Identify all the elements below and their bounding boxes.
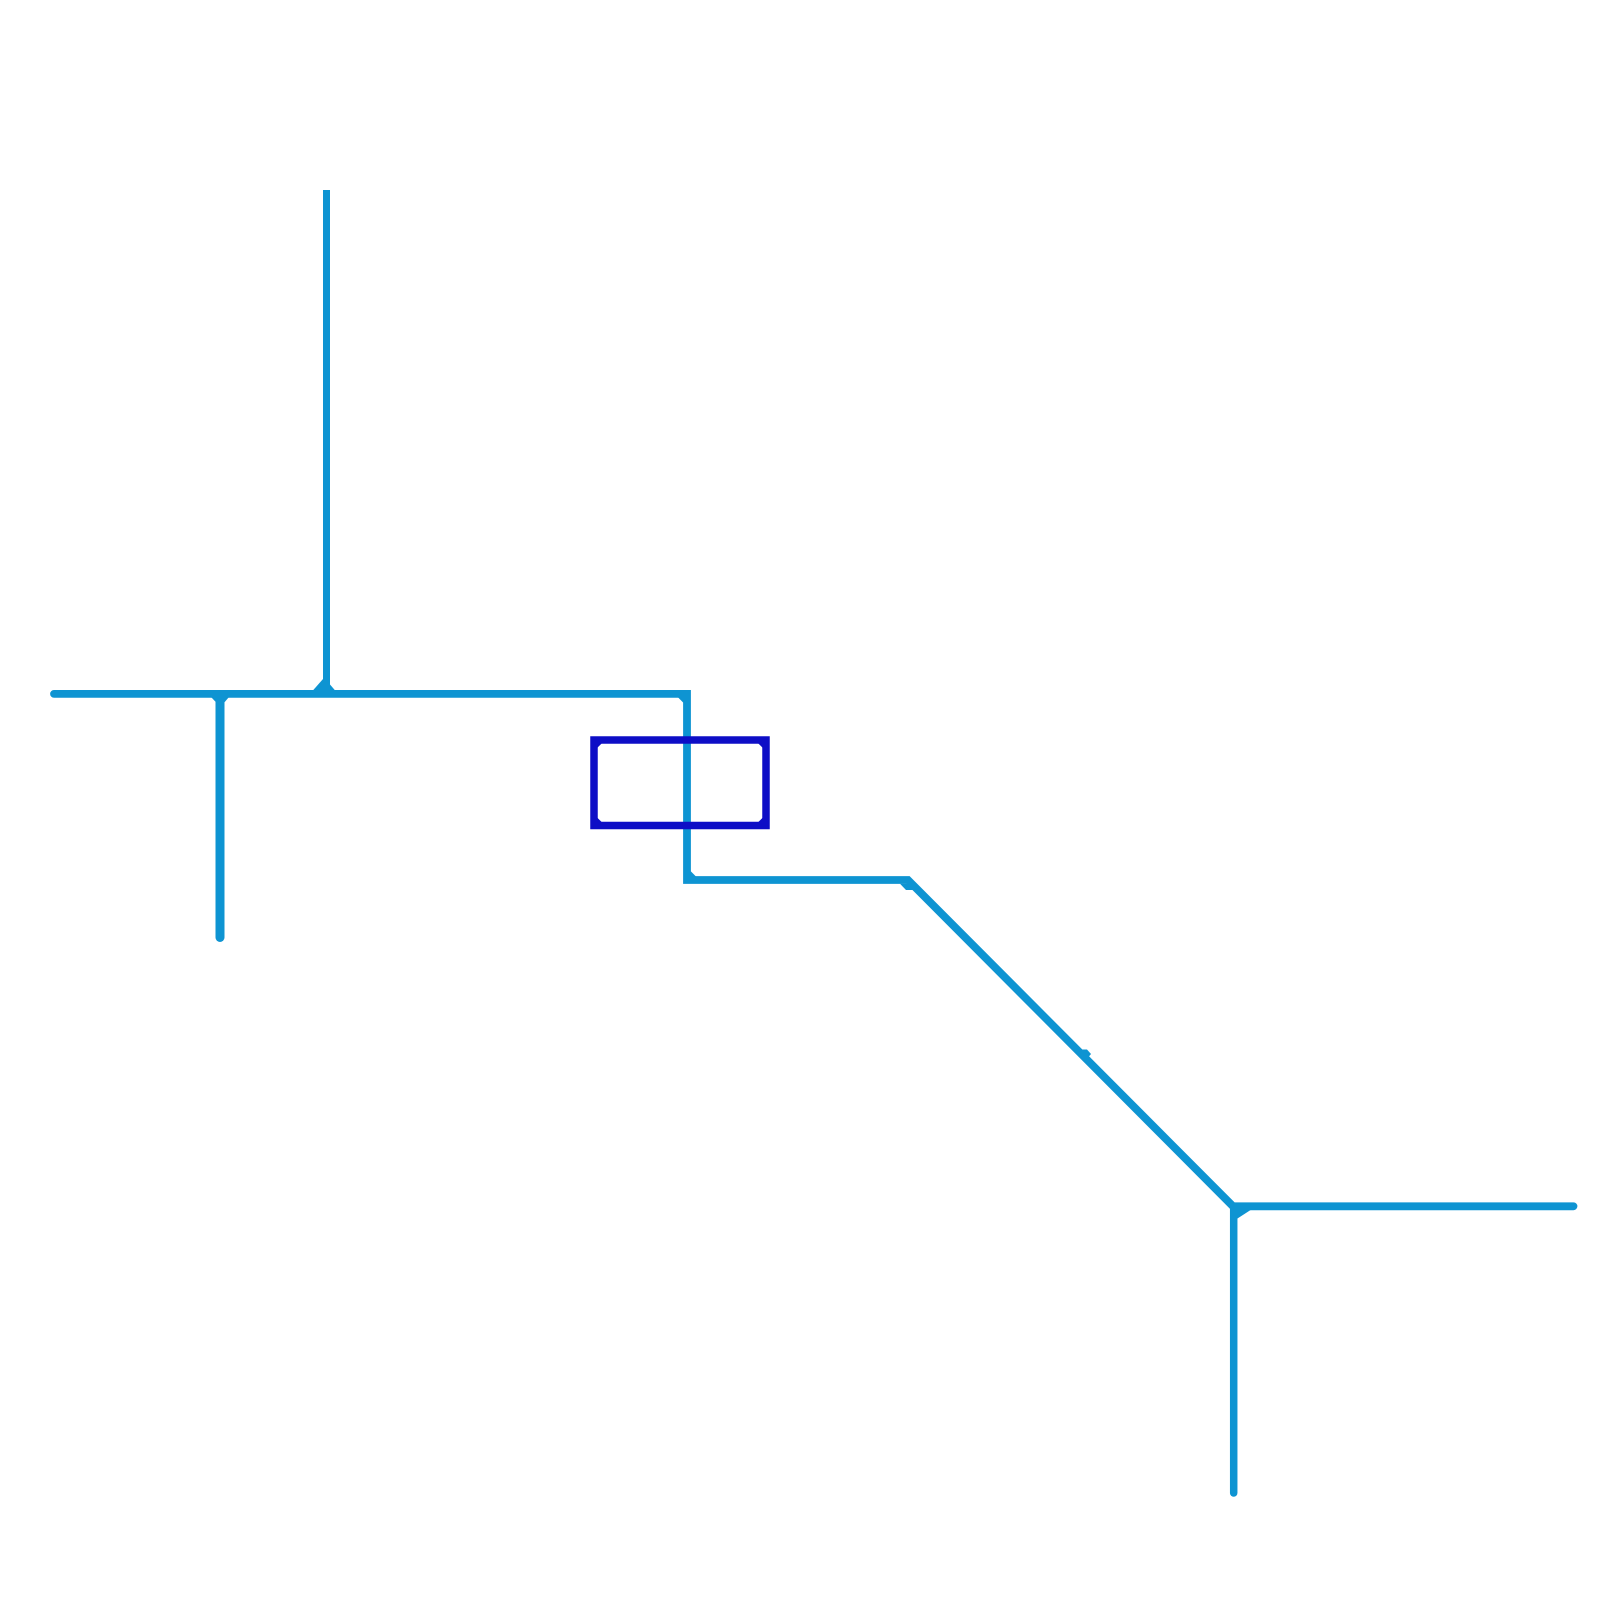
node inner fillet at corner (687,880) [689, 871, 695, 877]
node junction fillet bottom-right [1237, 1210, 1251, 1219]
node junction flare left stub [211, 697, 229, 707]
building rectangle outline [594, 740, 766, 826]
building inner corner fillet BL [596, 817, 603, 824]
wire left vertical stub [216, 695, 225, 938]
building inner corner fillet TR [757, 742, 764, 749]
node mid-diagonal kink [1081, 1050, 1092, 1061]
building inner corner fillet BR [757, 817, 764, 824]
building inner corner fillet TL [596, 742, 603, 749]
wire bottom-right vertical branch [1230, 1207, 1238, 1493]
wire main route polyline [54, 694, 1574, 1206]
node bend notch at diagonal start [900, 884, 914, 890]
node junction flare top branch [312, 679, 336, 692]
node inner fillet at corner (687,694) [678, 696, 684, 702]
wire top vertical branch [323, 190, 330, 694]
